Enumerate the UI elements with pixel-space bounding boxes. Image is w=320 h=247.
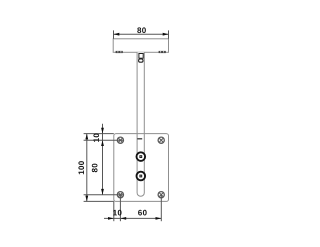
hole bottom-left	[117, 192, 123, 198]
bolt lower on stem	[137, 172, 146, 181]
dimension 80 (top): value label	[137, 27, 146, 33]
dimension 10 (bottom): value label	[113, 210, 121, 216]
dimension 60: left-pointing arrowhead at left hole line	[120, 217, 126, 220]
stem (vertical bar with rounded bottom)	[137, 52, 144, 196]
bottom dimension line	[104, 217, 161, 219]
flange screw detail right	[159, 51, 166, 53]
dimension 80 (top): extension line right	[168, 30, 170, 38]
dimension 10/80 shared dimension line (left)	[102, 124, 104, 195]
hole top-left	[117, 137, 123, 143]
left extension line: upper hole centerline	[84, 139, 124, 141]
dimension 100: top arrowhead	[85, 134, 88, 140]
dimension 10 (bottom): right-pointing arrowhead at plate edge	[108, 217, 114, 220]
dimension 80 (left): value label	[92, 164, 98, 173]
bottom extension line: left hole centerline	[119, 195, 121, 222]
slot top tick inside stem	[137, 138, 142, 140]
dimension 100: dimension line	[86, 134, 88, 202]
dimension 10 (left): value label	[93, 134, 99, 142]
dimension 80 (top): right arrowhead	[163, 33, 169, 36]
bolt upper on stem	[137, 152, 146, 161]
dimension 100: bottom arrowhead	[85, 196, 88, 202]
bottom extension line: right hole centerline	[160, 195, 162, 222]
dimension 80 (top): left arrowhead	[114, 33, 120, 36]
left extension line: plate top edge	[84, 133, 114, 135]
dimension 10 (left): down arrowhead at plate top	[101, 128, 104, 134]
left extension line: lower hole centerline	[84, 194, 124, 196]
mounting plate (front view)	[114, 134, 169, 202]
bolt detail at stem top	[139, 54, 144, 63]
dimension 80 (left): down arrowhead at lower hole line	[101, 189, 104, 195]
dimension 60: value label	[138, 210, 147, 216]
dimension 60: right-pointing arrowhead at right hole line	[156, 217, 162, 220]
left extension line: plate bottom edge	[84, 200, 114, 202]
hole bottom-right	[158, 192, 164, 198]
hole top-right	[158, 137, 164, 143]
bottom extension line: plate left edge	[113, 201, 115, 221]
dimension 80 (top): extension line left	[113, 30, 115, 38]
dimension 100: value label	[78, 161, 84, 174]
flange screw detail left	[116, 51, 123, 53]
dimension 80 (top): dimension line	[114, 33, 169, 35]
dimension 80 (left): up arrowhead at upper hole line	[101, 140, 104, 146]
flange (top plate, side view)	[113, 39, 168, 53]
